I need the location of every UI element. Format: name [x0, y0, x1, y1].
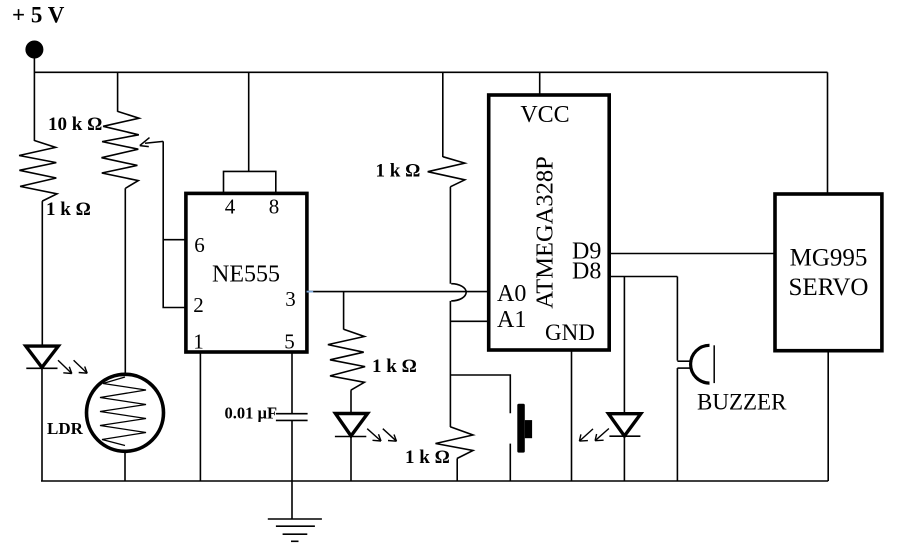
wire rail to potentiometer RV1 [117, 72, 119, 112]
potentiometer RV1 wiper arrow [140, 138, 163, 147]
buzzer BZ1 arc body [691, 345, 710, 383]
push button S1 plunger [525, 420, 532, 438]
wire rail down to servo top [827, 72, 829, 194]
wire ground rail bottom [41, 480, 828, 482]
IC U1 NE555 timer box [186, 193, 307, 352]
svg-text:A0: A0 [497, 281, 526, 307]
svg-text:0.01 µF: 0.01 µF [225, 403, 278, 422]
resistor R1 1k (left) [19, 141, 57, 202]
wire D8 net horizontal [609, 276, 677, 278]
svg-text:3: 3 [285, 287, 296, 311]
LED D1 cathode bar [26, 367, 57, 369]
wire rail to ATMEGA VCC [539, 72, 541, 95]
wire D8 branch to LED D3 [623, 277, 625, 414]
wire rail to R2 [442, 72, 444, 157]
LDR inner zigzag [100, 377, 146, 446]
wire D9 to servo [609, 253, 775, 255]
LED D3 cathode bar [609, 435, 640, 437]
wire buzzer to ground rail [676, 368, 678, 481]
wire R1 to LED D1 [41, 201, 43, 346]
svg-text:VCC: VCC [520, 102, 569, 128]
svg-text:1 k Ω: 1 k Ω [46, 199, 91, 220]
svg-text:1 k Ω: 1 k Ω [376, 161, 421, 182]
wire branch to push button [450, 375, 510, 413]
wire D8 net vertical to buzzer [676, 277, 678, 361]
push button S1 body [517, 404, 525, 453]
svg-text:GND: GND [545, 320, 595, 345]
svg-text:4: 4 [225, 195, 236, 219]
ground [268, 519, 322, 541]
wire wiper to NE555 pins 6 and 2 [163, 141, 186, 307]
svg-text:SERVO: SERVO [789, 274, 869, 301]
wire capacitor to ground symbol [291, 420, 293, 519]
LED D2 triangle [335, 414, 367, 436]
wire buzzer top stub [677, 360, 692, 362]
wire servo to ground rail [827, 351, 829, 481]
node +5V terminal dot [25, 41, 43, 59]
svg-text:NE555: NE555 [212, 262, 280, 288]
LED D1 triangle [26, 346, 59, 367]
wire RV1 to LDR [124, 188, 126, 375]
wire buzzer bottom stub [677, 367, 692, 369]
wire rail to NE555 pins 4 8 [248, 72, 250, 171]
svg-text:6: 6 [194, 233, 205, 257]
svg-text:1: 1 [193, 330, 204, 354]
wire LED D1 to ground rail [41, 368, 43, 481]
resistor R2 1k (top) [428, 157, 465, 187]
wire hop over pin3 line [451, 284, 466, 301]
svg-text:2: 2 [193, 293, 204, 317]
wire pin3 branch to R3 [343, 292, 345, 330]
capacitor C1 plates [276, 413, 308, 415]
module M1 MG995 servo box [775, 194, 882, 351]
svg-text:+ 5 V: + 5 V [12, 3, 65, 28]
svg-text:ATMEGA328P: ATMEGA328P [532, 156, 559, 308]
svg-text:A1: A1 [497, 307, 526, 333]
LDR body circle [87, 374, 164, 451]
svg-text:1 k Ω: 1 k Ω [405, 447, 450, 468]
svg-text:LDR: LDR [47, 419, 84, 438]
wire A1 stub [450, 320, 488, 322]
wire +5V rail vertical [33, 49, 35, 141]
svg-text:D8: D8 [572, 259, 601, 285]
wire NE555 pin 5 to capacitor [291, 352, 293, 414]
LED D3 triangle [609, 414, 641, 436]
svg-text:5: 5 [284, 330, 295, 354]
LED D1 light arrows [58, 360, 87, 373]
wire LED D3 to ground rail [623, 436, 625, 481]
LED D2 cathode bar [335, 436, 366, 438]
wire +5V top rail horizontal [34, 71, 828, 73]
wire NE555 pin 3 output [307, 291, 489, 293]
wire R3 to LED D2 [350, 390, 352, 412]
resistor R3 1k [328, 329, 365, 390]
wire ATMEGA GND to ground rail [571, 350, 573, 481]
wire artifact blue mark at pin 3 [307, 291, 314, 293]
LED D3 light arrows (pointing down-left) [579, 429, 609, 442]
wire NE555 pin 1 to ground rail [199, 352, 201, 481]
buzzer BZ1 flat side [713, 345, 715, 383]
svg-text:MG995: MG995 [790, 245, 868, 272]
wire hop to A1 and down [449, 301, 451, 427]
svg-text:10 k Ω: 10 k Ω [48, 114, 102, 135]
wire R2 down to hop [449, 187, 451, 284]
svg-text:BUZZER: BUZZER [697, 390, 787, 415]
wire LED D2 to ground rail [350, 437, 352, 482]
wire NE555 pin 6 stub [163, 239, 186, 241]
svg-text:8: 8 [269, 195, 280, 219]
svg-text:1 k Ω: 1 k Ω [372, 356, 417, 377]
resistor R5 1k (bottom) [436, 427, 474, 459]
wire LDR to ground rail [124, 451, 126, 481]
LED D2 light arrows [367, 429, 396, 442]
wire R5 to ground rail [456, 459, 458, 482]
IC U2 ATMEGA328P box [489, 95, 610, 350]
potentiometer RV1 10k zigzag [102, 111, 140, 188]
wire NE555 pin 4-8 bracket [224, 171, 276, 193]
wire push button to ground rail [509, 444, 511, 481]
